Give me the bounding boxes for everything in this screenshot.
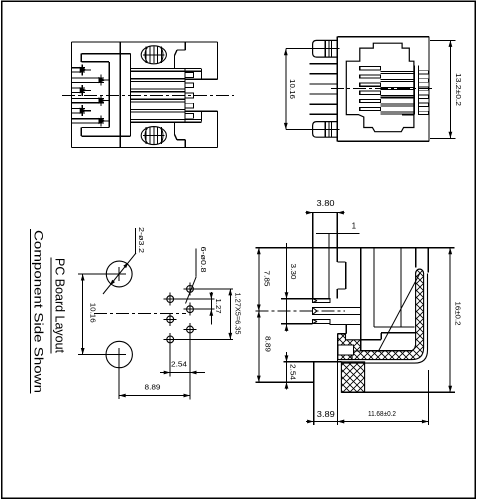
view D body top [255, 247, 454, 249]
view D body left and walls [312, 213, 314, 299]
svg-text:2.54: 2.54 [288, 364, 297, 380]
dimension 10.16 [285, 49, 287, 130]
view D rear notch [336, 213, 338, 262]
svg-text:7.85: 7.85 [263, 271, 272, 287]
svg-text:2-ø3.2: 2-ø3.2 [137, 227, 146, 253]
pin holes 6x0.8 [187, 286, 194, 293]
view B contacts [360, 67, 381, 70]
dimension 1.27X5=6.35 [229, 289, 231, 340]
view A contact comb [184, 69, 186, 123]
view D lower body [330, 324, 361, 326]
dimension 7.85 [258, 248, 260, 311]
view A wire-entry channel [81, 53, 130, 55]
shield tab cutout [338, 345, 354, 355]
svg-text:3.80: 3.80 [317, 199, 336, 208]
view A contacts [131, 68, 202, 70]
mounting hole bottom 3.2 [106, 341, 132, 367]
leader 6-phi0.8 [195, 249, 197, 277]
shield cross-section hatched [352, 269, 424, 360]
svg-text:PC Board Layout: PC Board Layout [53, 258, 67, 354]
svg-text:1.27: 1.27 [214, 299, 223, 314]
view D cavity shelf [361, 339, 381, 341]
svg-text:3.89: 3.89 [317, 410, 336, 419]
dimension 1.27 [210, 292, 212, 324]
view D bottom edge [341, 391, 455, 393]
dimension 2.54 side [286, 352, 288, 390]
dimension 13.2±0.2 [430, 39, 456, 41]
leader 2-phi3.2 [134, 228, 136, 254]
section diagonal [378, 273, 420, 352]
dimension 3.89 [306, 421, 345, 423]
dimension 16±0.2 [449, 248, 451, 392]
shield outer fold line [341, 274, 427, 364]
pin 1 with arrow [72, 67, 86, 69]
view B centerline [331, 88, 434, 90]
svg-text:2.54: 2.54 [171, 359, 187, 368]
view B plug opening [346, 43, 414, 132]
view A latch post top (hatched oval) [141, 46, 166, 64]
view A centerline [62, 94, 234, 96]
pin 5 with arrow [72, 108, 86, 110]
dimension 3.80 [306, 212, 345, 214]
svg-text:16±0.2: 16±0.2 [453, 302, 462, 326]
pcb centerline [94, 313, 186, 315]
pin 3 with arrow [72, 87, 86, 89]
shield cap [416, 269, 424, 273]
svg-text:11.68±0.2: 11.68±0.2 [368, 411, 396, 418]
svg-text:1: 1 [352, 222, 357, 231]
dimension 2.54 [160, 372, 205, 374]
svg-text:6-ø0.8: 6-ø0.8 [199, 247, 208, 273]
view A latch steps [184, 42, 186, 50]
svg-text:10.16: 10.16 [88, 303, 97, 323]
svg-text:8.89: 8.89 [264, 336, 273, 352]
view B contact comb [413, 66, 415, 115]
dimension 11.68±0.2 [338, 421, 429, 423]
pin 6 with arrow [72, 118, 105, 120]
dimension 10.16 pcb [82, 274, 84, 355]
mounting hole top 3.2 [106, 261, 132, 287]
dimension 8.89 side [258, 311, 260, 382]
svg-text:1.27X5=6.35: 1.27X5=6.35 [233, 293, 240, 335]
pcb standoff hatched [341, 362, 364, 392]
view B outer body [337, 36, 429, 38]
svg-text:3.30: 3.30 [289, 264, 298, 280]
view B latch posts [313, 40, 338, 57]
view D contact fork [281, 298, 313, 300]
pin 2 with arrow [72, 77, 105, 79]
view A dividers [119, 42, 121, 148]
view D centerline [255, 310, 345, 312]
svg-text:10.16: 10.16 [288, 79, 297, 99]
pin 4 with arrow [72, 97, 105, 99]
svg-text:8.89: 8.89 [145, 383, 161, 392]
svg-text:Component Side Shown: Component Side Shown [31, 230, 43, 393]
view B contact tails [310, 63, 338, 65]
shield left tab hatched [338, 334, 361, 360]
dimension 8.89 pcb [119, 395, 190, 397]
svg-text:13.2±0.2: 13.2±0.2 [454, 73, 463, 106]
view A outer body [72, 41, 218, 43]
dimension 3.30 [286, 243, 288, 332]
